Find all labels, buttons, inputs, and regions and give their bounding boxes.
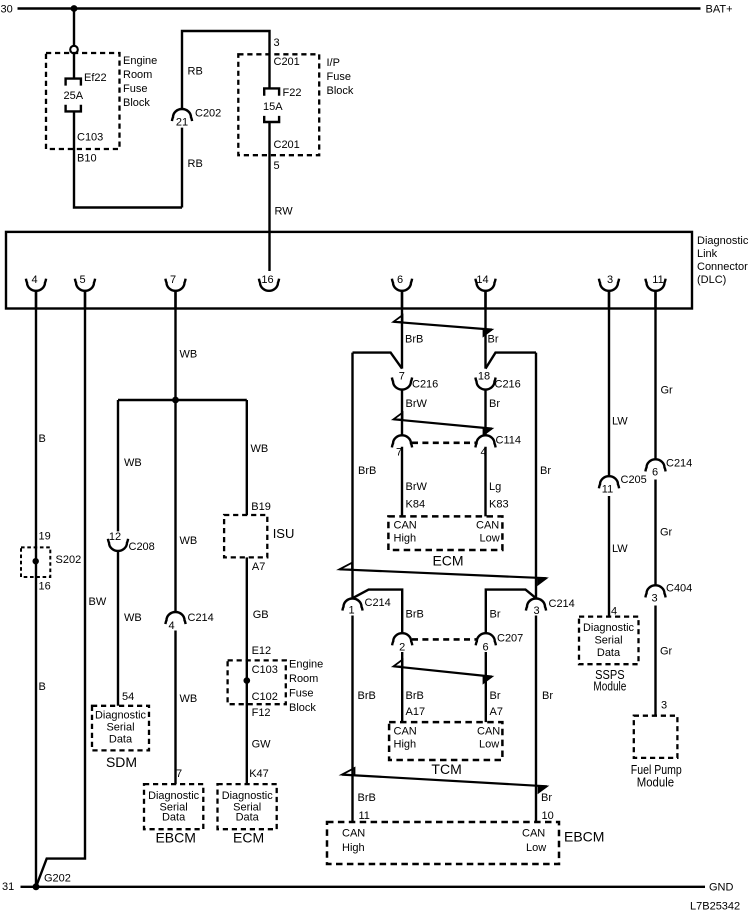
svg-text:Ef22: Ef22 bbox=[84, 72, 107, 84]
svg-text:C207: C207 bbox=[497, 633, 523, 645]
svg-text:A17: A17 bbox=[406, 706, 426, 718]
svg-text:Link: Link bbox=[697, 248, 718, 260]
svg-text:12: 12 bbox=[109, 531, 121, 543]
wire fuse Ef22 down and right to C202 bbox=[74, 111, 182, 207]
junction node WB branch bbox=[172, 397, 179, 404]
svg-text:BrB: BrB bbox=[358, 792, 376, 804]
svg-text:CAN: CAN bbox=[477, 726, 500, 738]
EBCM Diagnostic Serial Data dashed box bbox=[144, 784, 203, 829]
svg-text:19: 19 bbox=[39, 530, 51, 542]
svg-text:54: 54 bbox=[122, 691, 134, 703]
svg-text:Gr: Gr bbox=[660, 646, 673, 658]
svg-text:CAN: CAN bbox=[342, 828, 365, 840]
wire Br CAN-Low trunk upper bbox=[535, 353, 537, 599]
svg-text:Br: Br bbox=[488, 333, 499, 345]
svg-text:Serial: Serial bbox=[594, 635, 622, 647]
svg-text:6: 6 bbox=[397, 274, 403, 286]
svg-text:3: 3 bbox=[533, 605, 539, 617]
wire BrB C207 to TCM bbox=[401, 652, 403, 722]
svg-text:Data: Data bbox=[162, 812, 186, 824]
svg-text:16: 16 bbox=[39, 581, 51, 593]
svg-text:Serial: Serial bbox=[106, 722, 134, 734]
svg-text:3: 3 bbox=[607, 274, 613, 286]
wire WB from DLC pin 7 bbox=[174, 291, 176, 400]
svg-text:Diagnostic: Diagnostic bbox=[697, 235, 749, 247]
svg-text:Connector: Connector bbox=[697, 261, 748, 273]
svg-text:Fuse: Fuse bbox=[289, 688, 313, 700]
wire Gr C214 to C404 bbox=[654, 480, 656, 586]
svg-text:Br: Br bbox=[542, 690, 553, 702]
wire RW to DLC pin 16 bbox=[268, 122, 270, 271]
connector C207 pin 2 bbox=[392, 633, 412, 653]
svg-text:B10: B10 bbox=[77, 153, 97, 165]
svg-text:SDM: SDM bbox=[106, 754, 137, 770]
module Fuel Pump Module label bbox=[631, 763, 682, 790]
svg-text:C102: C102 bbox=[252, 691, 278, 703]
DLC pin 6 bbox=[392, 274, 412, 309]
wire GND bus bbox=[21, 886, 706, 888]
svg-text:21: 21 bbox=[176, 117, 188, 129]
svg-text:TCM: TCM bbox=[431, 761, 461, 777]
svg-text:3: 3 bbox=[661, 700, 667, 712]
svg-text:BrW: BrW bbox=[406, 398, 428, 410]
svg-text:G202: G202 bbox=[44, 872, 71, 884]
ground G202 junction dot bbox=[33, 883, 40, 890]
svg-text:C103: C103 bbox=[77, 132, 103, 144]
svg-text:C216: C216 bbox=[495, 378, 521, 390]
svg-text:C114: C114 bbox=[496, 435, 521, 447]
wire branch C214-3 to C207-6 bbox=[486, 590, 536, 633]
DLC pin 14 bbox=[475, 274, 495, 309]
svg-text:WB: WB bbox=[180, 535, 198, 547]
svg-text:F22: F22 bbox=[283, 87, 302, 99]
svg-text:BrW: BrW bbox=[406, 481, 428, 493]
ISU dashed box bbox=[224, 515, 267, 557]
svg-text:Low: Low bbox=[479, 739, 499, 751]
svg-text:C214: C214 bbox=[549, 598, 575, 610]
DLC pin 11 bbox=[645, 274, 665, 309]
svg-text:C201: C201 bbox=[274, 139, 300, 151]
svg-text:C216: C216 bbox=[412, 378, 438, 390]
svg-text:3: 3 bbox=[651, 593, 657, 605]
svg-text:Data: Data bbox=[109, 734, 133, 746]
Diagnostic Link Connector (DLC) box bbox=[6, 232, 692, 309]
svg-text:C202: C202 bbox=[195, 108, 221, 120]
svg-text:BrB: BrB bbox=[406, 690, 424, 702]
wire RB rising to connector C202 bbox=[181, 128, 183, 208]
connector C114 dashed link bbox=[412, 441, 477, 444]
svg-text:CAN: CAN bbox=[522, 828, 545, 840]
svg-text:F12: F12 bbox=[252, 707, 271, 719]
svg-text:3: 3 bbox=[274, 37, 280, 49]
I/P Fuse Block label bbox=[327, 57, 354, 97]
svg-text:GB: GB bbox=[253, 609, 269, 621]
Engine Room Fuse Block (pass-through) dashed box bbox=[228, 660, 286, 704]
svg-text:Lg: Lg bbox=[489, 481, 501, 493]
svg-text:31: 31 bbox=[2, 881, 14, 893]
wire WB branch bus bbox=[118, 399, 247, 401]
svg-text:C214: C214 bbox=[666, 458, 692, 470]
svg-text:K83: K83 bbox=[489, 499, 509, 511]
svg-text:L7B25342: L7B25342 bbox=[690, 901, 740, 913]
svg-text:RB: RB bbox=[188, 158, 203, 170]
svg-text:Br: Br bbox=[490, 609, 501, 621]
svg-text:High: High bbox=[342, 842, 365, 854]
svg-text:Gr: Gr bbox=[661, 385, 674, 397]
svg-text:14: 14 bbox=[476, 274, 488, 286]
wire B from DLC pin 4 to G202 bbox=[35, 291, 37, 887]
wire BW from DLC pin 5 to G202 bbox=[36, 291, 85, 887]
wire GB from ISU through fuse block to ECM bbox=[246, 557, 248, 784]
wire ring to fuse Ef22 bbox=[73, 53, 75, 78]
wire BrW C216 to C114 bbox=[401, 390, 403, 435]
svg-text:Engine: Engine bbox=[289, 659, 323, 671]
svg-text:6: 6 bbox=[483, 642, 489, 654]
svg-text:Room: Room bbox=[289, 673, 318, 685]
connector C214 pin 1 bbox=[342, 597, 390, 616]
connector C114 pin 7 bbox=[392, 435, 412, 458]
svg-text:High: High bbox=[394, 533, 417, 545]
connector C216 pin 7 bbox=[392, 370, 438, 390]
svg-text:Br: Br bbox=[540, 465, 551, 477]
wire bus to terminal ring bbox=[73, 9, 75, 46]
splice S202 dashed box bbox=[21, 547, 50, 577]
SDM Diagnostic Serial Data dashed box bbox=[92, 706, 149, 751]
wire BAT+ bus bbox=[18, 7, 701, 9]
svg-text:High: High bbox=[394, 739, 417, 751]
svg-text:4: 4 bbox=[168, 620, 174, 632]
svg-text:GND: GND bbox=[709, 881, 734, 893]
svg-text:A7: A7 bbox=[252, 561, 265, 573]
DLC label bbox=[697, 235, 749, 286]
Fuel Pump Module dashed box bbox=[634, 716, 678, 758]
splice S202 junction dot bbox=[33, 558, 39, 564]
connector C205 pin 11 bbox=[599, 474, 647, 495]
svg-text:7: 7 bbox=[176, 768, 182, 780]
svg-text:Fuse: Fuse bbox=[327, 71, 351, 83]
svg-text:WB: WB bbox=[124, 612, 142, 624]
svg-text:Data: Data bbox=[597, 647, 621, 659]
svg-text:1: 1 bbox=[348, 604, 354, 616]
svg-text:Diagnostic: Diagnostic bbox=[583, 622, 634, 634]
svg-text:I/P: I/P bbox=[327, 57, 340, 69]
wire RB from C202 over to I/P fuse block bbox=[182, 31, 270, 109]
DLC pin 3 bbox=[599, 274, 619, 309]
svg-text:ECM: ECM bbox=[233, 830, 264, 846]
wire WB from C208 to SDM bbox=[117, 551, 119, 706]
wire BrW to ECM CAN High bbox=[401, 447, 403, 517]
wire branch C214-1 to C207-2 bbox=[353, 590, 403, 633]
svg-text:WB: WB bbox=[124, 457, 142, 469]
wire Br trunk lower to EBCM bbox=[535, 616, 537, 823]
svg-text:C214: C214 bbox=[365, 597, 391, 609]
svg-text:C103: C103 bbox=[252, 664, 278, 676]
connector C214 pin 3 bbox=[526, 598, 575, 617]
connector C214 pin 4 bbox=[165, 612, 213, 632]
ECM Diagnostic Serial Data dashed box bbox=[218, 784, 277, 829]
svg-text:WB: WB bbox=[180, 349, 198, 361]
connector C114 pin 4 bbox=[475, 435, 521, 459]
Engine Room Fuse Block label bbox=[289, 659, 323, 714]
wire BrB CAN-High trunk upper bbox=[351, 353, 353, 599]
junction on BAT+ bus bbox=[71, 5, 78, 12]
wire BrB from DLC pin 6 bbox=[401, 291, 403, 369]
svg-text:BrB: BrB bbox=[358, 465, 376, 477]
svg-text:RB: RB bbox=[188, 66, 203, 78]
svg-text:Br: Br bbox=[490, 690, 501, 702]
wire BrB trunk lower to EBCM bbox=[351, 616, 353, 823]
svg-text:Br: Br bbox=[489, 398, 500, 410]
Engine Room Fuse Block (top) dashed box bbox=[46, 53, 120, 149]
DLC pin 5 bbox=[75, 274, 95, 309]
svg-text:C404: C404 bbox=[666, 583, 692, 595]
svg-text:BW: BW bbox=[89, 596, 107, 608]
svg-text:BrB: BrB bbox=[405, 333, 423, 345]
svg-text:B19: B19 bbox=[251, 501, 271, 513]
svg-text:WB: WB bbox=[180, 693, 198, 705]
TCM CAN dashed box bbox=[389, 722, 502, 760]
svg-text:ISU: ISU bbox=[273, 526, 295, 541]
svg-text:CAN: CAN bbox=[394, 726, 417, 738]
svg-text:K84: K84 bbox=[406, 499, 426, 511]
connector C202 pin 21 bbox=[172, 108, 221, 129]
svg-text:2: 2 bbox=[399, 641, 405, 653]
svg-text:ECM: ECM bbox=[432, 552, 463, 568]
svg-text:Module: Module bbox=[593, 679, 626, 693]
svg-text:BrB: BrB bbox=[406, 609, 424, 621]
svg-text:EBCM: EBCM bbox=[564, 829, 604, 845]
svg-text:LW: LW bbox=[612, 543, 628, 555]
svg-text:5: 5 bbox=[79, 274, 85, 286]
svg-text:Diagnostic: Diagnostic bbox=[222, 790, 273, 802]
svg-text:EBCM: EBCM bbox=[155, 830, 195, 846]
svg-text:10: 10 bbox=[542, 810, 554, 822]
svg-text:Room: Room bbox=[123, 69, 152, 81]
svg-text:25A: 25A bbox=[64, 90, 84, 102]
connector C214 pin 6 bbox=[645, 458, 692, 479]
svg-text:11: 11 bbox=[359, 810, 370, 822]
svg-text:7: 7 bbox=[399, 370, 405, 382]
I/P Fuse Block dashed box bbox=[238, 54, 319, 155]
wire twisted-pair crossover trunk above EBCM bbox=[342, 768, 547, 793]
connector C208 pin 12 bbox=[108, 531, 155, 553]
svg-text:Module: Module bbox=[637, 776, 674, 790]
wire LW from DLC pin 3 bbox=[608, 291, 610, 476]
svg-text:GW: GW bbox=[252, 739, 272, 751]
DLC pin 4 bbox=[26, 274, 46, 309]
svg-text:B: B bbox=[39, 681, 46, 693]
svg-text:C208: C208 bbox=[129, 541, 155, 553]
svg-text:CAN: CAN bbox=[394, 520, 417, 532]
wire twisted-pair crossover near DLC bbox=[394, 315, 493, 336]
svg-text:16: 16 bbox=[261, 274, 273, 286]
wire Br from DLC pin 14 bbox=[484, 291, 486, 369]
svg-text:A7: A7 bbox=[490, 706, 503, 718]
svg-text:RW: RW bbox=[275, 206, 294, 218]
wire branch corner to CAN-Low trunk bbox=[486, 353, 537, 369]
DLC pin 7 bbox=[165, 274, 185, 309]
wire Gr C404 to Fuel Pump Module bbox=[654, 606, 656, 716]
svg-text:Low: Low bbox=[480, 533, 500, 545]
connector C207 pin 6 bbox=[476, 633, 524, 654]
svg-text:CAN: CAN bbox=[476, 520, 499, 532]
wire twisted-pair crossover above TCM bbox=[394, 660, 493, 683]
DLC pin 16 bbox=[259, 274, 279, 291]
svg-text:Block: Block bbox=[289, 702, 316, 714]
svg-text:6: 6 bbox=[652, 467, 658, 479]
fuse F22 15A bbox=[264, 88, 279, 122]
connector C207 dashed link bbox=[412, 638, 477, 641]
wire Gr from DLC pin 11 bbox=[654, 291, 656, 459]
svg-text:BAT+: BAT+ bbox=[706, 4, 733, 16]
svg-text:30: 30 bbox=[1, 4, 13, 16]
svg-text:Diagnostic: Diagnostic bbox=[148, 790, 199, 802]
svg-text:BrB: BrB bbox=[358, 690, 376, 702]
svg-text:4: 4 bbox=[31, 274, 37, 286]
svg-text:18: 18 bbox=[478, 370, 490, 382]
svg-text:15A: 15A bbox=[263, 101, 283, 113]
svg-text:LW: LW bbox=[612, 416, 628, 428]
svg-text:Data: Data bbox=[236, 812, 260, 824]
wire branch corner to CAN-High trunk bbox=[353, 353, 403, 369]
module SSPS Module label bbox=[593, 668, 626, 693]
svg-text:7: 7 bbox=[170, 274, 176, 286]
terminal ring bbox=[70, 46, 78, 54]
svg-text:E12: E12 bbox=[252, 645, 272, 657]
wire Br C216 to C114 bbox=[484, 390, 486, 435]
svg-text:5: 5 bbox=[274, 160, 280, 172]
svg-text:Br: Br bbox=[541, 792, 552, 804]
wire twisted-pair crossover above C114 bbox=[394, 413, 493, 435]
svg-text:11: 11 bbox=[602, 483, 613, 495]
svg-text:C214: C214 bbox=[188, 612, 214, 624]
wire Lg to ECM CAN Low bbox=[484, 447, 486, 517]
svg-text:11: 11 bbox=[652, 274, 663, 286]
wire WB branch to ISU bbox=[246, 400, 248, 515]
svg-text:Block: Block bbox=[327, 85, 354, 97]
svg-text:(DLC): (DLC) bbox=[697, 274, 726, 286]
wire LW C205 to SSPS bbox=[608, 496, 610, 617]
svg-text:S202: S202 bbox=[56, 554, 82, 566]
svg-text:Gr: Gr bbox=[660, 527, 673, 539]
EBCM CAN dashed box bbox=[327, 822, 559, 864]
wire WB from junction to C214 bbox=[174, 400, 176, 612]
fuse Ef22 25A bbox=[66, 79, 81, 112]
junction dot inside fuse block bbox=[244, 677, 251, 684]
svg-text:Fuse: Fuse bbox=[123, 83, 147, 95]
svg-text:WB: WB bbox=[251, 443, 269, 455]
ECM CAN dashed box bbox=[388, 516, 502, 550]
svg-text:B: B bbox=[39, 433, 46, 445]
svg-text:C205: C205 bbox=[621, 474, 647, 486]
wire WB from C214 to EBCM bbox=[174, 631, 176, 785]
svg-text:C201: C201 bbox=[274, 56, 300, 68]
connector C216 pin 18 bbox=[475, 370, 520, 390]
wire WB branch to C208 bbox=[117, 400, 119, 531]
svg-text:K47: K47 bbox=[249, 768, 269, 780]
wire Br C207 to TCM bbox=[485, 652, 487, 722]
svg-text:Diagnostic: Diagnostic bbox=[95, 710, 146, 722]
wire twisted-pair crossover trunk above C214 bbox=[340, 563, 547, 585]
connector C404 pin 3 bbox=[645, 583, 692, 605]
SSPS Diagnostic Serial Data dashed box bbox=[579, 617, 639, 665]
svg-text:Block: Block bbox=[123, 97, 150, 109]
svg-text:Low: Low bbox=[526, 842, 546, 854]
Engine Room Fuse Block label bbox=[123, 55, 157, 109]
svg-text:Engine: Engine bbox=[123, 55, 157, 67]
